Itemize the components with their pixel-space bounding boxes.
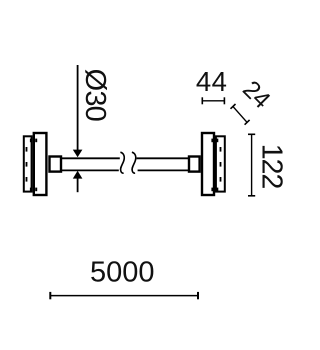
right screw dot bottom A [211, 188, 213, 192]
left plate slot 1 [26, 147, 28, 152]
dim 24 lower tick [245, 120, 250, 125]
left screw dot top A [30, 139, 32, 143]
tube right segment top edge [137, 157, 189, 159]
left screw dot bottom B [35, 188, 37, 192]
left canopy body [34, 133, 47, 195]
dim 24 line [233, 106, 247, 122]
tube left segment top edge [62, 157, 120, 159]
dim 44 line [202, 100, 224, 102]
svg-text:122: 122 [255, 144, 287, 189]
dim 122 line [251, 134, 253, 196]
svg-text:Ø30: Ø30 [79, 69, 111, 121]
left plate slot 2 [26, 162, 28, 167]
left screw dot top B [35, 139, 37, 143]
dim 44 left tick [201, 97, 203, 104]
dim Ø30 lower extension line [77, 178, 79, 193]
left tube connector [50, 157, 62, 172]
right plate slot 3 [220, 177, 222, 182]
right wall plate [216, 136, 225, 191]
dim 24 upper tick [231, 104, 236, 109]
break line left [120, 152, 124, 173]
right screw dot top B [216, 139, 218, 143]
dim 122 bottom tick [248, 195, 255, 197]
svg-text:44: 44 [196, 66, 228, 97]
dim 44 right tick [223, 97, 225, 104]
break line right [132, 152, 136, 173]
right tube connector [189, 157, 200, 172]
right plate slot 1 [220, 147, 222, 152]
svg-text:5000: 5000 [90, 257, 155, 289]
dim Ø30 upper arrowhead [73, 150, 83, 158]
right plate slot 2 [220, 162, 222, 167]
dim 122 top tick [248, 133, 255, 135]
tube left segment bottom edge [62, 169, 119, 171]
right screw dot top A [211, 139, 213, 143]
dim Ø30 lower arrowhead [73, 171, 83, 179]
left wall plate [24, 136, 32, 191]
dim 5000 line [50, 295, 198, 297]
tube right segment bottom edge [138, 169, 189, 171]
right screw dot bottom B [216, 188, 218, 192]
right canopy body [202, 133, 214, 195]
dim Ø30 upper extension line [77, 65, 79, 151]
left plate slot 3 [26, 177, 28, 182]
left screw dot bottom A [30, 188, 32, 192]
dim 5000 right tick [197, 292, 199, 299]
dim 5000 left tick [49, 292, 51, 299]
